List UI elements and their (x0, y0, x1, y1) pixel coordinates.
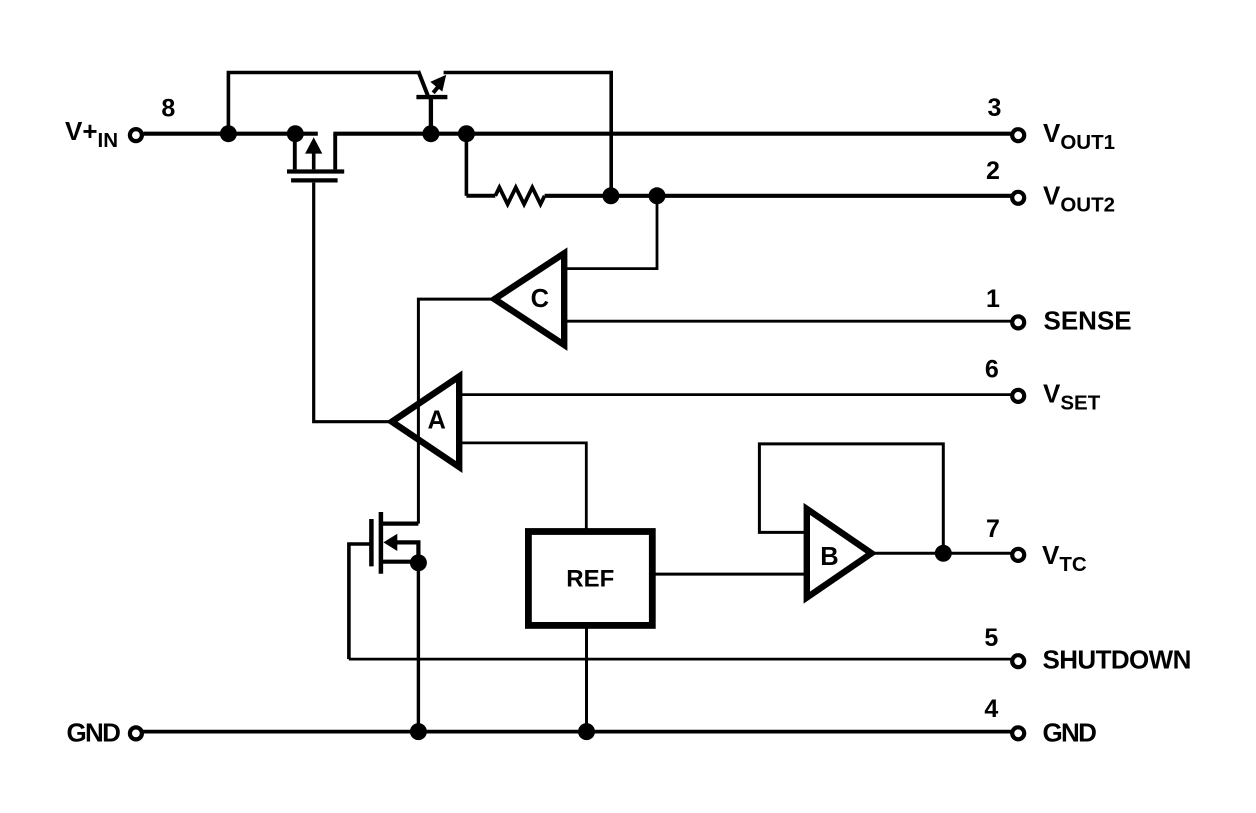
svg-text:REF: REF (566, 565, 614, 592)
terminal VOUT2 pin 2 (1012, 192, 1024, 204)
transistor M2 body stub (397, 542, 419, 562)
svg-text:3: 3 (988, 94, 1002, 122)
wire V+IN rail left segment (144, 132, 318, 136)
wire amp B output to VTC (872, 552, 1012, 555)
transistor M1 top plate (287, 169, 344, 173)
svg-text:GND: GND (1043, 718, 1097, 748)
wire output rail right segment to VOUT1 (333, 132, 1011, 136)
wire Q1 base loop (228, 73, 418, 134)
node junction M2 source/body (410, 554, 427, 571)
node junction ground / M2 source (410, 723, 427, 740)
svg-text:7: 7 (986, 515, 1000, 543)
transistor Q1 base lead down (429, 97, 433, 134)
resistor R1 (495, 187, 544, 204)
wire amp C lower input to SENSE (567, 320, 1012, 323)
terminal GND right pin 4 (1012, 727, 1024, 739)
transistor M1 arrow shaft (312, 152, 316, 169)
terminal VOUT1 pin 3 (1012, 129, 1024, 141)
svg-text:1: 1 (986, 285, 1000, 313)
terminal SHUTDOWN pin 5 (1012, 655, 1024, 667)
wire resistor to VOUT2 (545, 194, 1012, 198)
svg-text:5: 5 (984, 624, 998, 652)
transistor Q1 emitter arrow shaft (433, 84, 440, 93)
wire amp A lower input to REF top (461, 443, 586, 529)
svg-text:B: B (820, 543, 838, 571)
svg-text:A: A (427, 407, 445, 435)
wire resistor left lead (466, 194, 495, 198)
wire REF output to amp B input (654, 573, 806, 576)
transistor Q1 collector slant lead (418, 71, 428, 96)
node junction on rail at resistor branch (458, 125, 475, 142)
svg-text:C: C (531, 285, 549, 313)
terminal SENSE pin 1 (1012, 316, 1024, 328)
svg-text:2: 2 (986, 157, 1000, 185)
terminal V+IN pin 8 (130, 129, 142, 141)
svg-text:SHUTDOWN: SHUTDOWN (1043, 644, 1191, 674)
node junction VOUT2 / amp C input branch (649, 187, 666, 204)
svg-text:GND: GND (67, 718, 121, 748)
wire M2 source to ground rail (417, 563, 420, 732)
svg-text:SENSE: SENSE (1044, 306, 1132, 336)
transistor M1 arrowhead (305, 137, 322, 153)
node junction B output / feedback (935, 545, 952, 562)
op-amp A (392, 376, 459, 467)
wire amp A upper input to VSET (461, 393, 1012, 396)
block REF U1 (528, 532, 652, 626)
svg-text:8: 8 (161, 95, 175, 123)
terminal GND left (130, 727, 142, 739)
transistor M2 body arrowhead (383, 534, 397, 551)
node junction resistor / emitter wire (602, 187, 619, 204)
wire M2 gate to shutdown (349, 544, 372, 659)
terminal VSET pin 6 (1012, 390, 1024, 402)
transistor Q1 base bar (416, 95, 447, 99)
op-amp B (807, 509, 872, 598)
wire REF bottom to ground rail (585, 627, 588, 732)
transistor M2 gate bar (369, 519, 374, 566)
transistor M2 channel bar (379, 512, 384, 574)
transistor M2 source stub (381, 560, 419, 564)
wire amp C output down to M2 drain (418, 299, 493, 523)
transistor M1 source lead (293, 134, 297, 170)
transistor M2 drain stub (381, 521, 419, 525)
wire VOUT2 node to amp C upper input (567, 196, 658, 269)
node junction at M1 source (287, 125, 304, 142)
terminal VTC pin 7 (1012, 549, 1024, 561)
node junction on rail at Q1 base (422, 125, 439, 142)
transistor Q1 emitter arrowhead (430, 75, 446, 92)
wire M1 gate to amp A output (314, 183, 390, 422)
transistor M1 bottom plate (gate) (291, 178, 338, 182)
svg-text:4: 4 (984, 695, 998, 723)
wire rail to resistor R1 (465, 134, 469, 196)
node junction ground / REF (578, 723, 595, 740)
wire shutdown line (349, 658, 1012, 661)
svg-text:6: 6 (985, 355, 999, 383)
op-amp C (495, 253, 565, 345)
transistor M1 drain lead (333, 134, 337, 170)
wire Q1 emitter to resistor node (444, 73, 612, 196)
node junction on V+IN rail (220, 125, 237, 142)
wire amp B feedback loop (759, 444, 943, 553)
ground rail wire (142, 730, 1012, 734)
